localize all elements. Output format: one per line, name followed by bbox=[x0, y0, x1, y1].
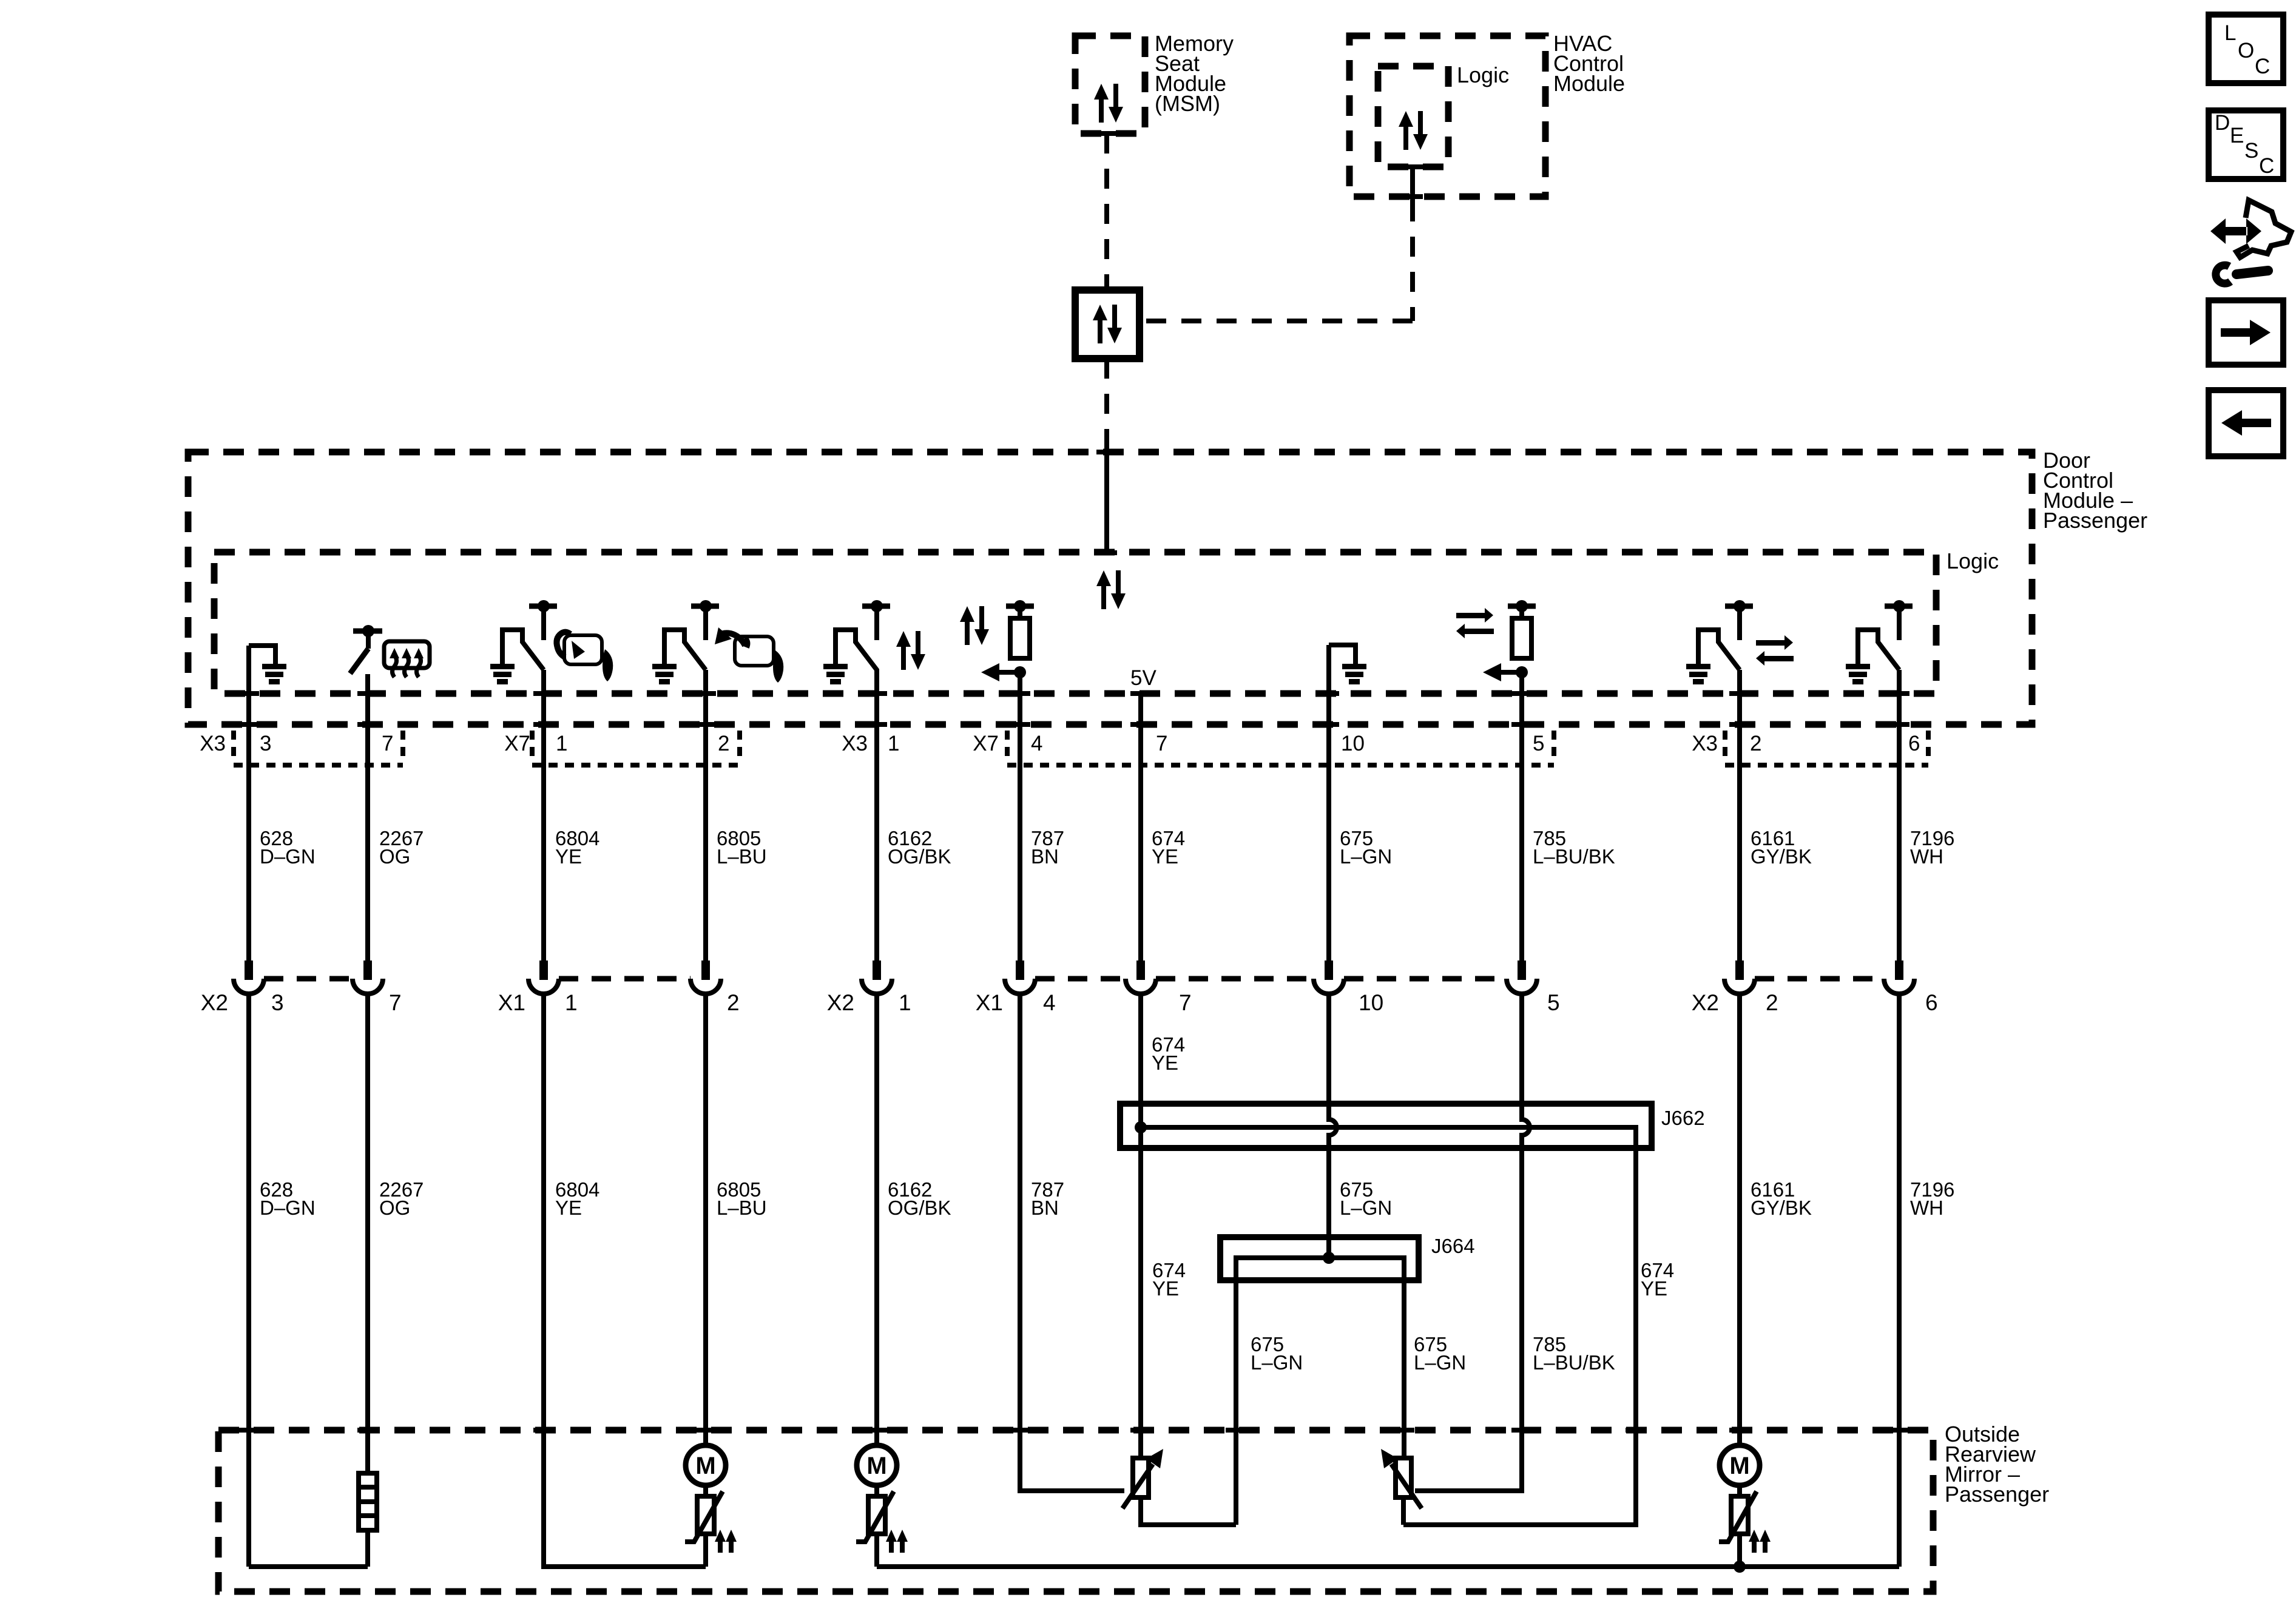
connector pin 1 (in-line, col 5) bbox=[862, 960, 892, 994]
svg-text:X2: X2 bbox=[1692, 990, 1719, 1015]
svg-text:1: 1 bbox=[565, 990, 578, 1015]
svg-text:X3: X3 bbox=[200, 732, 226, 755]
switch mirror common switch (col11) bbox=[1855, 600, 1913, 670]
node ground hook col1 bbox=[249, 646, 275, 665]
switch heated mirror (col2) bbox=[350, 625, 382, 673]
connector cavity outline 385-664 bbox=[234, 731, 403, 765]
serial data connector box bbox=[1075, 290, 1140, 359]
svg-text:6162OG/BK: 6162OG/BK bbox=[888, 1178, 951, 1219]
svg-text:M: M bbox=[695, 1453, 715, 1479]
svg-text:674YE: 674YE bbox=[1152, 1259, 1186, 1300]
wiper arrow position feedback R (col9) bbox=[1483, 663, 1528, 681]
svg-text:C: C bbox=[2255, 55, 2270, 78]
ground symbol col1 bbox=[262, 664, 286, 684]
svg-text:1: 1 bbox=[888, 732, 899, 755]
switch mirror up/down switch (col5) bbox=[833, 600, 890, 670]
ground symbol mirror select switch (col3) bbox=[490, 664, 515, 684]
svg-text:X3: X3 bbox=[1692, 732, 1718, 755]
svg-text:5: 5 bbox=[1547, 990, 1560, 1015]
wire 787 BN lower run bbox=[1020, 994, 1124, 1491]
wire 2267 OG col2 upper run bbox=[365, 674, 370, 960]
svg-text:X1: X1 bbox=[976, 990, 1003, 1015]
pot1 bottom connection to J664 left leg bbox=[1141, 1497, 1236, 1525]
J664 internal U wires bbox=[1236, 1258, 1404, 1525]
connector pin 2 (in-line, col 4) bbox=[690, 960, 721, 994]
heater (heated mirror) icon bbox=[384, 641, 430, 677]
wire 6804 YE lower run bbox=[544, 994, 706, 1567]
switch mirror left/right switch (col10) bbox=[1696, 600, 1753, 670]
wire into DCM logic (solid) bbox=[1104, 452, 1109, 554]
splice pack J662 box bbox=[1120, 1104, 1652, 1148]
svg-text:HVACControlModule: HVACControlModule bbox=[1553, 31, 1625, 96]
svg-text:1: 1 bbox=[556, 732, 567, 755]
svg-text:6804YE: 6804YE bbox=[555, 827, 599, 868]
potentiometer mirror position up/down bbox=[1123, 1449, 1163, 1508]
thermistor M fold bbox=[1719, 1491, 1757, 1542]
svg-text:X2: X2 bbox=[201, 990, 228, 1015]
svg-text:OutsideRearviewMirror –Passeng: OutsideRearviewMirror –Passenger bbox=[1945, 1422, 2049, 1507]
junction J664 at col8 bbox=[1323, 1252, 1335, 1264]
svg-text:2: 2 bbox=[1766, 990, 1778, 1015]
connector cavity outline 1660-2561 bbox=[1007, 731, 1554, 765]
resistor position feedback R (col6) bbox=[1006, 600, 1034, 658]
wire 628 D-GN lower run bbox=[246, 994, 251, 1567]
serial arrows pair B bbox=[960, 606, 989, 645]
motor M left/right bbox=[857, 1445, 897, 1485]
heated mirror element bbox=[359, 1473, 377, 1530]
connector pin 1 (in-line, col 3) bbox=[528, 960, 559, 994]
svg-text:6: 6 bbox=[1908, 732, 1920, 755]
svg-text:675L–GN: 675L–GN bbox=[1414, 1333, 1466, 1374]
svg-text:Logic: Logic bbox=[1457, 62, 1509, 87]
J662 internal bus and 674 YE branch bbox=[1141, 1127, 1636, 1525]
svg-text:7: 7 bbox=[1156, 732, 1167, 755]
svg-text:X3: X3 bbox=[842, 732, 868, 755]
svg-text:X1: X1 bbox=[498, 990, 525, 1015]
connector pin 5 (in-line, col 9) bbox=[1507, 960, 1537, 994]
connector cavity outline 2843-3178 bbox=[1725, 731, 1928, 765]
svg-text:675L–GN: 675L–GN bbox=[1340, 827, 1392, 868]
svg-text:4: 4 bbox=[1043, 990, 1056, 1015]
svg-text:5: 5 bbox=[1533, 732, 1544, 755]
icon mirror adjust right bbox=[556, 632, 613, 681]
wire 674 YE lower run (through J662) bbox=[1138, 994, 1143, 1458]
bottom bus wire bbox=[877, 1564, 1899, 1569]
svg-text:675L–GN: 675L–GN bbox=[1251, 1333, 1303, 1374]
svg-text:X7: X7 bbox=[973, 732, 999, 755]
wire 7196 WH lower run bbox=[1897, 994, 1902, 1567]
resistor position feedback R (col9) bbox=[1508, 600, 1536, 658]
svg-text:J662: J662 bbox=[1661, 1107, 1705, 1129]
svg-text:MemorySeatModule(MSM): MemorySeatModule(MSM) bbox=[1155, 31, 1234, 116]
connector link dash w3-w4 bbox=[559, 976, 690, 982]
svg-text:S: S bbox=[2244, 139, 2258, 163]
ground symbol col8 bbox=[1342, 664, 1366, 684]
exchange arrows right of col10 bbox=[1756, 635, 1794, 666]
wire 628 D-GN col1 upper run bbox=[246, 646, 251, 960]
wire 7196 WH col11 upper run bbox=[1897, 670, 1902, 960]
svg-text:6: 6 bbox=[1925, 990, 1938, 1015]
svg-text:787BN: 787BN bbox=[1031, 1178, 1064, 1219]
wire 675 L-GN lower run with hop over J662 bbox=[1329, 994, 1337, 1258]
ground symbol mirror fold switch (col4) bbox=[652, 664, 677, 684]
node ground hook col8 bbox=[1329, 645, 1356, 665]
connector pin 3 (in-line, col 1) bbox=[234, 960, 264, 994]
connector link dash w7-w8 bbox=[1156, 976, 1314, 982]
connector pin 2 (in-line, col 10) bbox=[1724, 960, 1755, 994]
wire 6162 OG/BK col5 upper run bbox=[874, 669, 879, 960]
svg-text:X7: X7 bbox=[504, 732, 530, 755]
wire HVAC to serial box (dashed horizontal) bbox=[1140, 319, 1413, 323]
svg-text:787BN: 787BN bbox=[1031, 827, 1064, 868]
svg-text:1: 1 bbox=[899, 990, 911, 1015]
svg-text:2267OG: 2267OG bbox=[379, 1178, 424, 1219]
HVAC inner Logic dashed box bbox=[1378, 66, 1448, 167]
svg-text:X2: X2 bbox=[827, 990, 854, 1015]
wire 785 L-BU/BK lower run with hop over J662 bbox=[1415, 994, 1530, 1491]
connector pin 7 (in-line, col 7) bbox=[1126, 960, 1156, 994]
svg-text:2: 2 bbox=[718, 732, 729, 755]
nav icon LOC box bbox=[2209, 15, 2283, 83]
connector link dash w6-w7 bbox=[1035, 976, 1126, 982]
arrows M left/right bbox=[886, 1530, 908, 1553]
connector link dash w1-w2 bbox=[264, 976, 353, 982]
connector cavity outline 877-1219 bbox=[532, 731, 740, 765]
svg-text:3: 3 bbox=[271, 990, 284, 1015]
junction J662 at col7 bbox=[1135, 1121, 1147, 1133]
svg-text:7196WH: 7196WH bbox=[1910, 1178, 1954, 1219]
module HVAC Control Module dashed box bbox=[1349, 36, 1545, 197]
svg-text:D: D bbox=[2215, 111, 2230, 135]
connector pin 10 (in-line, col 8) bbox=[1314, 960, 1344, 994]
svg-text:O: O bbox=[2238, 39, 2254, 62]
svg-text:2267OG: 2267OG bbox=[379, 827, 424, 868]
ground symbol mirror common switch (col11) bbox=[1846, 664, 1870, 684]
wiper arrow position feedback R (col6) bbox=[981, 663, 1026, 681]
wire crossing dashes bbox=[238, 694, 1909, 1430]
pot2 bottom stub bbox=[1401, 1497, 1406, 1525]
wire MSM to serial box (dashed) bbox=[1104, 133, 1109, 290]
svg-text:7: 7 bbox=[1179, 990, 1192, 1015]
svg-text:7196WH: 7196WH bbox=[1910, 827, 1954, 868]
connector pin 7 (in-line, col 2) bbox=[353, 960, 383, 994]
wire 6805 L-BU col4 upper run bbox=[703, 670, 708, 960]
svg-text:L: L bbox=[2224, 21, 2236, 45]
wire HVAC down (dashed) bbox=[1410, 201, 1415, 321]
wire 787 BN col6 upper run bbox=[1018, 672, 1022, 960]
wire HVAC logic stub (solid) bbox=[1410, 167, 1415, 201]
svg-text:674YE: 674YE bbox=[1152, 827, 1185, 868]
wire 675 L-GN col8 upper run bbox=[1326, 645, 1331, 960]
module Outside Rearview Mirror - Passenger dashed box bbox=[218, 1430, 1933, 1592]
svg-text:674YE: 674YE bbox=[1152, 1033, 1185, 1074]
thermistor M up/down bbox=[685, 1491, 723, 1542]
svg-text:785L–BU/BK: 785L–BU/BK bbox=[1533, 827, 1615, 868]
nav icon adjust/wrench bbox=[2210, 200, 2291, 283]
ground symbol mirror left/right switch (col10) bbox=[1686, 664, 1710, 684]
motor M fold bbox=[1720, 1445, 1760, 1485]
DCM inner Logic dashed box bbox=[214, 552, 1936, 694]
svg-text:4: 4 bbox=[1031, 732, 1042, 755]
svg-text:675L–GN: 675L–GN bbox=[1340, 1178, 1392, 1219]
svg-text:3: 3 bbox=[260, 732, 271, 755]
svg-text:785L–BU/BK: 785L–BU/BK bbox=[1533, 1333, 1615, 1374]
arrows M fold bbox=[1749, 1530, 1771, 1553]
connector link dash w10-w11 bbox=[1755, 976, 1884, 982]
svg-text:674YE: 674YE bbox=[1641, 1259, 1674, 1300]
wire 6161 GY/BK lower run bbox=[1737, 994, 1742, 1567]
switch mirror fold switch (col4) bbox=[662, 600, 719, 670]
svg-text:10: 10 bbox=[1341, 732, 1365, 755]
potentiometer mirror position left/right bbox=[1381, 1449, 1422, 1508]
svg-text:7: 7 bbox=[389, 990, 402, 1015]
svg-text:J664: J664 bbox=[1431, 1235, 1475, 1257]
svg-text:6162OG/BK: 6162OG/BK bbox=[888, 827, 951, 868]
svg-text:C: C bbox=[2259, 154, 2274, 178]
svg-text:6805L–BU: 6805L–BU bbox=[717, 1178, 767, 1219]
svg-text:M: M bbox=[1729, 1453, 1749, 1479]
wire 785 L-BU/BK col9 upper run bbox=[1519, 672, 1524, 960]
serial data box arrows bbox=[1093, 305, 1122, 343]
nav icon back box bbox=[2209, 390, 2283, 456]
module Door Control Module - Passenger dashed box bbox=[188, 452, 2032, 724]
wire 6804 YE col3 upper run bbox=[541, 670, 546, 960]
icon mirror adjust left bbox=[715, 627, 783, 683]
svg-text:E: E bbox=[2230, 124, 2244, 147]
arrows M up/down bbox=[715, 1530, 737, 1553]
wire 6162 OG/BK lower run bbox=[874, 994, 879, 1567]
svg-text:10: 10 bbox=[1359, 990, 1383, 1015]
connector link dash w8-w9 bbox=[1344, 976, 1507, 982]
svg-text:628D–GN: 628D–GN bbox=[260, 827, 316, 868]
wire 2267 OG lower run + heated mirror loop bbox=[249, 994, 368, 1567]
MSM serial data arrows bbox=[1094, 84, 1123, 123]
motor M up/down bbox=[686, 1445, 726, 1485]
nav icon forward box bbox=[2209, 300, 2283, 365]
svg-text:6804YE: 6804YE bbox=[555, 1178, 599, 1219]
switch mirror select switch (col3) bbox=[500, 600, 557, 670]
wire 6161 GY/BK col10 upper run bbox=[1737, 670, 1742, 960]
svg-text:Logic: Logic bbox=[1947, 549, 1999, 573]
svg-text:M: M bbox=[866, 1453, 886, 1479]
thermistor M left/right bbox=[856, 1491, 894, 1542]
connector pin 6 (in-line, col 11) bbox=[1884, 960, 1914, 994]
nav icon DESC box bbox=[2209, 110, 2283, 179]
connector pin 4 (in-line, col 6) bbox=[1005, 960, 1035, 994]
svg-text:2: 2 bbox=[727, 990, 740, 1015]
svg-text:628D–GN: 628D–GN bbox=[260, 1178, 316, 1219]
serial arrows pair A bbox=[896, 631, 925, 670]
wire 6805 L-BU lower run bbox=[703, 994, 708, 1567]
module MSM (Memory Seat Module) dashed box bbox=[1075, 36, 1145, 133]
wire serial box down to DCM (dashed) bbox=[1104, 359, 1109, 452]
svg-text:5V: 5V bbox=[1130, 666, 1156, 690]
exchange arrows left of col9 bbox=[1456, 608, 1494, 638]
svg-text:6161GY/BK: 6161GY/BK bbox=[1751, 827, 1812, 868]
wire 674 YE col7 upper run bbox=[1138, 694, 1143, 960]
junction bottom bus at col10 bbox=[1734, 1561, 1746, 1573]
svg-text:2: 2 bbox=[1750, 732, 1761, 755]
ground symbol mirror up/down switch (col5) bbox=[823, 664, 848, 684]
HVAC logic serial data arrows bbox=[1399, 111, 1428, 150]
svg-text:6805L–BU: 6805L–BU bbox=[717, 827, 767, 868]
svg-text:DoorControlModule –Passenger: DoorControlModule –Passenger bbox=[2043, 448, 2147, 533]
svg-text:6161GY/BK: 6161GY/BK bbox=[1751, 1178, 1812, 1219]
svg-text:7: 7 bbox=[382, 732, 393, 755]
splice pack J664 box bbox=[1220, 1237, 1419, 1280]
DCM logic serial data arrows bbox=[1096, 570, 1126, 609]
